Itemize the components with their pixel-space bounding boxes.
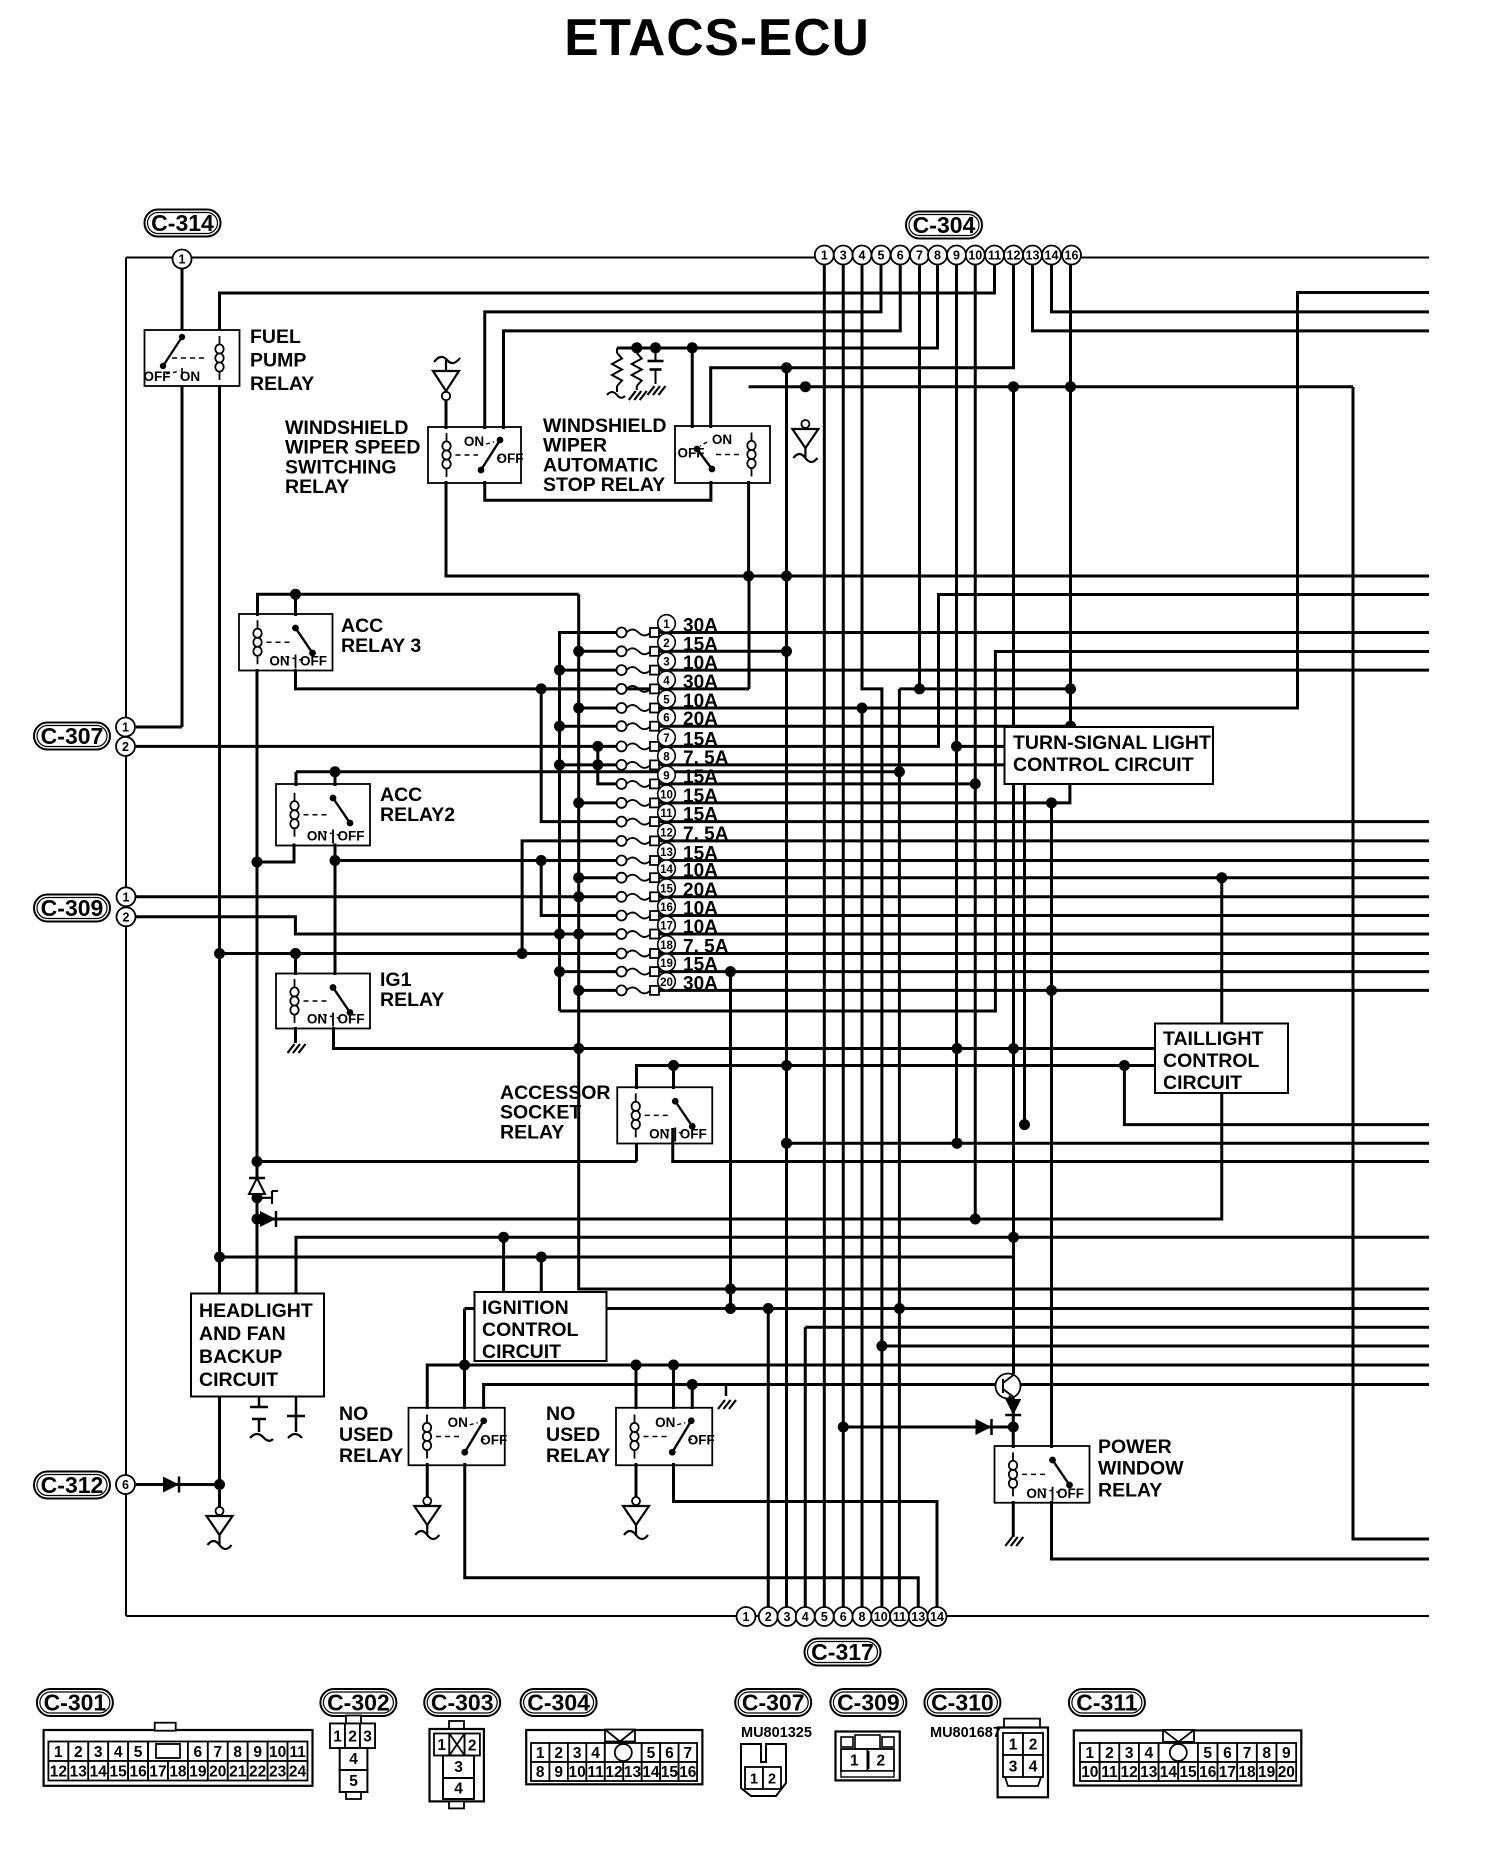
connector label C-304 bottom [521, 1689, 597, 1716]
wire bus V4 x578 to ignition row [579, 594, 1429, 1289]
fuse F3 10A [617, 652, 719, 675]
svg-text:1: 1 [123, 890, 130, 904]
svg-text:12: 12 [1121, 1764, 1138, 1781]
svg-text:C-307: C-307 [41, 723, 104, 749]
node C-309 pin 1 [117, 887, 136, 906]
svg-text:3: 3 [573, 1745, 582, 1762]
wire power window relay coil top [1012, 1427, 1015, 1448]
svg-text:RELAY: RELAY [1098, 1479, 1162, 1501]
connector label C-303 [424, 1689, 500, 1716]
wire C-307 pin2 fuse7 feed row [136, 745, 617, 748]
wire row y1389 [484, 1385, 1429, 1410]
svg-text:ON: ON [1026, 1486, 1046, 1501]
wire fuse10 output to turn-signal box [659, 784, 1070, 803]
label IG1 relay [380, 969, 444, 1011]
svg-text:8: 8 [536, 1764, 545, 1781]
node C-314 pin 1 [173, 250, 192, 269]
ECU boundary bottom edge [126, 1615, 1429, 1617]
wire fuse7 output riser and exit right [659, 595, 1429, 747]
svg-text:19: 19 [660, 958, 673, 970]
fuse F1 30A [617, 615, 719, 638]
fuse F10 15A [617, 785, 719, 808]
svg-text:3: 3 [784, 1610, 791, 1624]
svg-text:16: 16 [1065, 249, 1079, 263]
svg-text:13: 13 [624, 1764, 642, 1781]
wire C-307 pin1 row [136, 726, 182, 729]
wire no-used relay1 switch feed [463, 1309, 466, 1410]
svg-text:11: 11 [988, 249, 1001, 263]
wire C-317 pin2 riser [767, 1309, 770, 1608]
svg-text:RELAY: RELAY [339, 1445, 403, 1467]
connector label C-307 bottom [735, 1689, 811, 1716]
svg-text:AUTOMATIC: AUTOMATIC [543, 454, 658, 476]
svg-text:1: 1 [1086, 1745, 1095, 1762]
svg-text:TAILLIGHT: TAILLIGHT [1163, 1028, 1263, 1050]
connector label C-309 bottom [830, 1689, 906, 1716]
connector pinout C-304 [526, 1730, 702, 1785]
svg-text:17: 17 [149, 1763, 166, 1780]
svg-text:RELAY2: RELAY2 [380, 804, 455, 826]
diode D2 on accessory diode row [260, 1211, 276, 1227]
svg-text:2: 2 [768, 1772, 776, 1788]
node C-304 pin 3 [834, 246, 853, 265]
box ignition control circuit [475, 1292, 607, 1363]
wire fuse3 feed [560, 669, 618, 672]
wire ACC relay2 coil link row [257, 844, 294, 863]
svg-text:C-302: C-302 [327, 1690, 390, 1716]
wire resistor row to wiper stop relay switch [691, 348, 694, 428]
svg-text:9: 9 [1282, 1745, 1291, 1762]
wire fuse18 feed row [220, 952, 618, 955]
svg-text:7. 5A: 7. 5A [683, 748, 729, 769]
wire C-304 pin16 long bus into turn-signal box [1069, 264, 1072, 729]
wire accessor socket relay coil row [257, 1160, 637, 1163]
svg-text:15: 15 [1179, 1764, 1197, 1781]
wire right bus x1353 down and exit [1353, 387, 1429, 1539]
svg-text:12: 12 [660, 827, 673, 839]
svg-text:8: 8 [663, 751, 670, 763]
label power window relay [1098, 1436, 1184, 1501]
fuse F19 15A [617, 954, 719, 977]
wire fuse1 output [659, 631, 1429, 634]
svg-text:ACC: ACC [341, 615, 383, 637]
wire power window relay coil row [843, 1426, 1013, 1429]
svg-text:ACCESSOR: ACCESSOR [500, 1082, 611, 1104]
svg-text:15: 15 [661, 1764, 679, 1781]
svg-text:17: 17 [660, 921, 673, 933]
svg-text:8: 8 [859, 1610, 866, 1624]
connector label C-301 [37, 1689, 113, 1716]
svg-text:1: 1 [122, 721, 129, 735]
node C-317 pin 11 [890, 1607, 909, 1626]
connector pinout C-303 [430, 1721, 484, 1808]
wire C-304 pin8 to resistor network [617, 264, 938, 348]
svg-text:C-309: C-309 [837, 1690, 900, 1716]
svg-text:23: 23 [269, 1763, 287, 1780]
svg-text:5: 5 [663, 695, 670, 707]
wire fuse2 feed [579, 650, 617, 653]
wire bus x219 from fuel pump coil down to headlight circuit [218, 384, 221, 1294]
svg-text:18: 18 [660, 940, 673, 952]
wire bus x219 below headlight box to ground [218, 1397, 221, 1508]
svg-text:24: 24 [289, 1763, 307, 1780]
connector label C-317 bottom [805, 1639, 881, 1666]
svg-text:4: 4 [859, 249, 866, 263]
wire C-304 pin5 to wiper speed relay [485, 264, 881, 429]
svg-text:11: 11 [587, 1764, 604, 1781]
svg-text:5: 5 [878, 249, 885, 263]
svg-text:14: 14 [1160, 1764, 1178, 1781]
wire fuse17 output [659, 933, 1429, 936]
label no used relay 1 [339, 1403, 403, 1467]
wire bus V2a fuse4 to fuse11 [541, 689, 617, 822]
fuse F18 7.5A [617, 936, 729, 959]
svg-text:3: 3 [454, 1759, 463, 1776]
svg-text:15: 15 [660, 883, 673, 895]
wire fuse12 output [659, 839, 1429, 842]
node C-317 pin 13 [909, 1607, 928, 1626]
svg-text:2: 2 [348, 1728, 357, 1745]
svg-text:15A: 15A [683, 767, 718, 788]
svg-text:ON: ON [307, 1012, 327, 1027]
resistor R2 [632, 348, 642, 390]
svg-text:NO: NO [339, 1403, 368, 1425]
fuse F16 10A [617, 898, 719, 921]
wire bus V1 fuse12 feed [522, 841, 617, 954]
svg-text:WIPER SPEED: WIPER SPEED [285, 437, 420, 459]
diode D5 on bus x257 [249, 1178, 265, 1194]
svg-text:2: 2 [876, 1753, 885, 1770]
svg-text:USED: USED [339, 1424, 393, 1446]
svg-text:11: 11 [289, 1744, 306, 1761]
wire fuse14 feed [579, 876, 617, 879]
svg-text:30A: 30A [683, 973, 718, 994]
node C-317 pin 1 [737, 1607, 756, 1626]
relay fuel pump (box) [145, 330, 240, 386]
wire fuse5 feed [579, 707, 617, 710]
label accessor socket relay [500, 1082, 611, 1143]
svg-text:OFF: OFF [678, 446, 705, 461]
connector pinout C-307 [741, 1744, 786, 1796]
svg-text:1: 1 [333, 1728, 342, 1745]
svg-text:10: 10 [1081, 1764, 1098, 1781]
svg-text:2: 2 [122, 740, 129, 754]
svg-text:10: 10 [874, 1610, 888, 1624]
wire C-304 pin9 down [955, 264, 958, 1143]
svg-text:10A: 10A [683, 917, 718, 938]
svg-text:9: 9 [253, 1744, 262, 1761]
connector label C-310 [924, 1689, 1000, 1716]
fuse F20 30A [617, 973, 719, 996]
svg-text:1: 1 [536, 1745, 545, 1762]
ground under no-used relay1 coil [414, 1497, 440, 1539]
svg-text:SOCKET: SOCKET [500, 1102, 581, 1124]
svg-text:6: 6 [840, 1610, 847, 1624]
wire C-317 pin8 riser from fuse5 row [861, 708, 864, 1607]
wire wiper relays common link [485, 481, 711, 500]
node C-304 pin 9 [947, 246, 966, 265]
svg-text:2: 2 [468, 1738, 477, 1755]
connector pinout C-310 [998, 1719, 1048, 1798]
wire fuse19 feed [560, 970, 618, 973]
node C-317 pin 10 [871, 1607, 890, 1626]
ECU boundary top edge [126, 257, 1429, 259]
svg-text:PUMP: PUMP [250, 349, 306, 371]
wire no-used relay2 off stub [691, 1385, 694, 1410]
svg-text:OFF: OFF [480, 1433, 507, 1448]
wire fuse18 output [659, 952, 1429, 955]
wire no-used relay1 common to C-317 pin13 [465, 1463, 919, 1607]
connector pinout C-301 [44, 1723, 313, 1786]
node C-317 pin 8 [853, 1607, 872, 1626]
svg-text:10: 10 [269, 1744, 286, 1761]
svg-text:ON: ON [649, 1127, 669, 1142]
wire fuse16 output [659, 914, 1429, 917]
wire ACC relay3 top row [258, 594, 579, 616]
wire row y1366 relay coils feed [427, 1365, 1429, 1409]
svg-text:14: 14 [90, 1763, 108, 1780]
wire fuse14 output [659, 876, 1429, 879]
label ACC relay 3 [341, 615, 421, 657]
node C-304 pin 14 [1042, 246, 1061, 265]
wire fuel pump relay coil top [220, 264, 995, 332]
svg-text:7. 5A: 7. 5A [683, 824, 729, 845]
node C-317 pin 3 [778, 1607, 797, 1626]
wire fuse15 output [659, 895, 1429, 898]
text MU801325 [741, 1725, 812, 1741]
svg-text:6: 6 [663, 713, 669, 725]
svg-text:1: 1 [54, 1744, 63, 1761]
svg-text:9: 9 [554, 1764, 563, 1781]
svg-text:3: 3 [94, 1744, 103, 1761]
fuse F4 30A [617, 671, 719, 694]
svg-text:22: 22 [249, 1763, 266, 1780]
wire ACC relay2 coil stub [295, 772, 298, 786]
ground hatch under capacitor C1 [648, 386, 666, 395]
svg-text:12: 12 [1007, 249, 1021, 263]
svg-text:15A: 15A [683, 805, 718, 826]
wire power window relay common out [1052, 1501, 1430, 1559]
wire C-304 pin12 to wiper auto stop relay [711, 264, 1014, 428]
svg-text:12: 12 [50, 1763, 67, 1780]
wire C-304 pin6 to wiper speed relay off [504, 264, 901, 429]
svg-text:2: 2 [123, 910, 130, 924]
svg-text:18: 18 [169, 1763, 187, 1780]
svg-text:30A: 30A [683, 672, 718, 693]
wire C-304 pin13 to right edge [1033, 264, 1430, 331]
connector label C-312 [34, 1472, 110, 1499]
node C-304 pin 1 [815, 246, 834, 265]
node C-304 pin 13 [1023, 246, 1042, 265]
svg-text:RELAY: RELAY [285, 476, 349, 498]
wire C-304 pin14 to right edge [1052, 264, 1430, 312]
wire fuse8 output riser down [659, 765, 1025, 1125]
svg-text:CONTROL: CONTROL [482, 1319, 578, 1341]
relay windshield wiper speed switching [428, 427, 524, 483]
connector label C-307 [34, 723, 110, 750]
svg-text:21: 21 [229, 1763, 247, 1780]
svg-text:2: 2 [74, 1744, 83, 1761]
svg-text:14: 14 [1045, 249, 1059, 263]
svg-text:1: 1 [821, 249, 828, 263]
connector label C-311 [1069, 1689, 1145, 1716]
box turn-signal light control circuit [1005, 727, 1214, 784]
label no used relay 2 [546, 1403, 610, 1467]
svg-text:OFF: OFF [338, 1012, 365, 1027]
svg-text:4: 4 [1029, 1759, 1038, 1776]
wire no-used relay2 switch stub [672, 1365, 675, 1409]
svg-text:1: 1 [179, 253, 186, 267]
wire fuse13 output [659, 859, 1429, 862]
svg-text:NO: NO [546, 1403, 575, 1425]
fuse F12 7.5A [617, 823, 729, 846]
svg-text:CONTROL CIRCUIT: CONTROL CIRCUIT [1013, 754, 1194, 776]
relay no-used 1 [409, 1408, 508, 1466]
svg-text:8: 8 [1262, 1745, 1271, 1762]
connector label C-314 [145, 210, 221, 237]
wire no-used relay2 coil ground lead [635, 1463, 638, 1497]
svg-text:5: 5 [821, 1610, 828, 1624]
wire IG1 relay common row [334, 1027, 1156, 1049]
fuse F6 20A [617, 708, 719, 731]
wire transistor to diode to coil [1012, 1398, 1015, 1427]
wire exit row from V3 riser [560, 652, 1430, 1012]
svg-text:1: 1 [663, 619, 670, 631]
svg-text:WINDSHIELD: WINDSHIELD [543, 415, 667, 437]
svg-text:OFF: OFF [497, 451, 524, 466]
svg-text:ON: ON [180, 369, 200, 384]
ground antenna symbol above wiper speed relay coil [433, 357, 460, 429]
wire C-309 pin2 to fuse17 feed [136, 917, 617, 934]
svg-text:3: 3 [1125, 1745, 1134, 1762]
svg-text:7: 7 [916, 249, 923, 263]
svg-text:2: 2 [765, 1610, 772, 1624]
svg-text:BACKUP: BACKUP [199, 1346, 282, 1368]
svg-text:7: 7 [663, 733, 669, 745]
node C-304 pin 16 [1062, 246, 1081, 265]
diode D1 on C-312 row [163, 1477, 179, 1493]
svg-text:C-303: C-303 [431, 1690, 494, 1716]
fuse F13 15A [617, 843, 719, 866]
svg-text:20A: 20A [683, 709, 718, 730]
svg-text:C-317: C-317 [811, 1639, 874, 1665]
svg-text:C-301: C-301 [44, 1690, 107, 1716]
fuse F17 10A [617, 916, 719, 939]
svg-text:C-314: C-314 [151, 210, 214, 236]
svg-text:13: 13 [660, 847, 673, 859]
svg-text:14: 14 [930, 1610, 944, 1624]
wire ACC relay3 common fuse4 row [296, 669, 750, 689]
svg-text:4: 4 [1144, 1745, 1153, 1762]
svg-text:RELAY: RELAY [546, 1445, 610, 1467]
svg-text:5: 5 [134, 1744, 143, 1761]
svg-text:4: 4 [591, 1745, 600, 1762]
wire wiper stop coil bottom [747, 481, 750, 576]
wire fuse6 output [659, 725, 1071, 728]
wire taillight box top stub from fuse14 row [1220, 878, 1223, 1024]
capacitor symbol under headlight box a [250, 1397, 273, 1441]
svg-text:AND FAN: AND FAN [199, 1323, 286, 1345]
wire ACC relay2 switch stub [334, 772, 337, 786]
svg-text:10: 10 [569, 1764, 586, 1781]
transistor Q1 above power window relay [996, 1374, 1021, 1400]
svg-text:IGNITION: IGNITION [482, 1297, 569, 1319]
wire ACC relay2 common to IG1 relay [334, 844, 337, 976]
svg-text:1: 1 [1009, 1737, 1018, 1754]
svg-text:6: 6 [897, 249, 904, 263]
svg-text:3: 3 [840, 249, 847, 263]
svg-text:POWER: POWER [1098, 1436, 1172, 1458]
wire bus x786 to C-317 pin3 [785, 368, 788, 1607]
ground below C-312 bus [207, 1507, 233, 1549]
svg-text:1: 1 [750, 1772, 758, 1788]
svg-text:10: 10 [660, 789, 673, 801]
capacitor symbol under headlight box b [287, 1397, 305, 1439]
svg-text:FUEL: FUEL [250, 326, 301, 348]
svg-text:6: 6 [665, 1745, 674, 1762]
svg-text:5: 5 [349, 1773, 358, 1790]
svg-text:9: 9 [663, 770, 669, 782]
relay fuel pump internals [144, 334, 224, 384]
fuse F11 15A [617, 804, 719, 827]
wire fuse6 feed [560, 725, 618, 728]
wire accessor socket relay switch top stub [672, 1066, 675, 1090]
svg-text:13: 13 [1026, 249, 1040, 263]
svg-text:14: 14 [642, 1764, 660, 1781]
wire fuse20 feed [579, 989, 617, 992]
svg-text:17: 17 [1219, 1764, 1236, 1781]
wire accessor socket relay top row [637, 1066, 1156, 1090]
wire IG1 relay coil stub [294, 954, 297, 976]
svg-text:20: 20 [209, 1763, 226, 1780]
svg-text:WINDSHIELD: WINDSHIELD [285, 417, 409, 439]
svg-text:13: 13 [911, 1610, 925, 1624]
wire ignition feed stub a [502, 1237, 505, 1293]
connector label C-309 [34, 895, 110, 922]
svg-text:CIRCUIT: CIRCUIT [1163, 1072, 1242, 1094]
wire bus x730 fuse19 branch down [729, 972, 732, 1309]
svg-text:2: 2 [554, 1745, 563, 1762]
text MU801687 [930, 1725, 1001, 1741]
svg-text:3: 3 [363, 1728, 372, 1745]
fuse F7 15A [617, 729, 719, 752]
svg-text:6: 6 [122, 1478, 129, 1492]
svg-text:ON: ON [269, 654, 289, 669]
diode D4 above power window coil [1005, 1399, 1021, 1415]
node C-304 pin 12 [1004, 246, 1023, 265]
wire bus V2b fuse13 to fuse16 [541, 861, 617, 916]
wire C-309 pin1 to fuse15 feed [136, 895, 617, 898]
wire wiper relay coil row y576 to right edge [446, 481, 1429, 576]
svg-text:C-304: C-304 [913, 212, 976, 238]
svg-text:CIRCUIT: CIRCUIT [482, 1341, 561, 1363]
wire transistor bus x1013 lower [1012, 387, 1015, 1374]
relay no-used 2 [616, 1408, 715, 1466]
svg-text:ON: ON [464, 434, 484, 449]
node C-317 pin 6 [834, 1607, 853, 1626]
svg-text:MU801325: MU801325 [741, 1725, 812, 1741]
svg-text:ON: ON [448, 1415, 468, 1430]
connector pinout C-302 [330, 1716, 375, 1800]
node C-317 pin 2 [759, 1607, 778, 1626]
wire C-304 pin3 to C-317 pin6 [842, 264, 845, 1607]
wire C-317 pin11 bus [898, 689, 901, 1607]
svg-text:16: 16 [660, 902, 673, 914]
ground hatch IG1 relay coil [288, 1027, 306, 1053]
svg-text:6: 6 [194, 1744, 203, 1761]
capacitor-like tap on bus x257 [257, 1191, 278, 1204]
svg-text:15: 15 [110, 1763, 128, 1780]
